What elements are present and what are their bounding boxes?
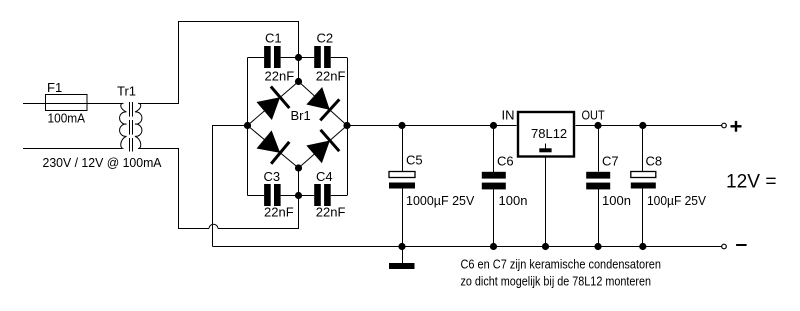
svg-text:C6: C6 [497,154,514,169]
svg-text:78L12: 78L12 [531,126,567,141]
capacitor C8 electrolytic [631,154,706,209]
svg-text:OUT: OUT [582,108,605,123]
wire regulator ground pin [545,158,547,247]
capacitor C6 [482,154,528,209]
svg-text:C2: C2 [317,31,334,46]
bridge rectifier Br1 diamond edges [248,82,348,169]
svg-text:Tr1: Tr1 [117,84,136,99]
capacitor C3 [264,169,294,220]
fuse F1 [45,80,87,126]
capacitor C1 [264,31,294,84]
svg-text:230V / 12V @ 100mA: 230V / 12V @ 100mA [43,156,163,170]
node C6 top [490,122,497,129]
wire C8 branch [642,126,644,172]
node left of bridge [244,122,251,129]
secondary coil [135,103,142,148]
svg-text:C6 en C7 zijn keramische conde: C6 en C7 zijn keramische condensatoren [461,258,662,272]
wire bridge right vertical [347,58,349,196]
svg-text:22nF: 22nF [265,69,295,84]
wire left node to minus rail [213,126,248,247]
node C6 bottom [490,243,497,250]
terminal minus [722,244,747,249]
svg-text:22nF: 22nF [264,205,294,220]
wire C1 row [248,57,265,59]
wire minus rail [213,246,722,248]
diode D3 bottom-left [255,128,289,163]
wire C6 branch [493,126,495,173]
svg-text:C3: C3 [264,169,281,184]
svg-text:22nF: 22nF [316,69,346,84]
node C1 C2 junction [295,54,302,61]
wire hop over vertical [209,224,218,228]
wire C3 row [248,195,265,197]
svg-text:C5: C5 [406,153,423,168]
node regulator ground [542,243,549,250]
svg-text:100mA: 100mA [48,111,86,126]
wire secondary bottom down [139,149,209,229]
svg-text:Br1: Br1 [291,108,311,123]
svg-text:100µF 25V: 100µF 25V [647,193,706,208]
primary coil [120,103,127,148]
wire bridge left vertical [247,58,249,196]
svg-text:C1: C1 [265,31,282,46]
svg-text:1000µF 25V: 1000µF 25V [406,193,475,208]
terminal plus [722,121,742,132]
svg-text:C8: C8 [646,154,663,169]
wire C7 branch [598,126,600,172]
node right of bridge [343,122,350,129]
node bottom of bridge [295,164,302,171]
diode D1 top-left [255,87,289,122]
diode D2 top-right [305,85,340,120]
wire plus rail [347,125,517,127]
capacitor C2 [314,31,345,84]
diode D4 bottom-right [305,130,340,165]
svg-text:IN: IN [502,108,515,123]
node C8 top [639,122,646,129]
capacitor C4 [314,169,345,220]
node C3 C4 junction [295,192,302,199]
svg-text:F1: F1 [47,80,62,95]
node C8 bottom [639,243,646,250]
svg-text:12V =: 12V = [726,171,777,193]
node top of bridge [295,78,302,85]
node C7 bottom [594,243,601,250]
ground [389,263,415,269]
wire primary bottom [23,148,122,150]
svg-text:C4: C4 [316,169,333,184]
node C5 bottom [398,243,405,250]
regulator U1 78L12 [502,108,605,157]
capacitor C7 [586,154,631,209]
core lines [129,102,131,152]
node C5 top [398,122,405,129]
node C7 top [594,122,601,129]
svg-text:C7: C7 [602,154,619,169]
svg-text:100n: 100n [499,193,528,208]
svg-text:zo dicht mogelijk bij de 78L12: zo dicht mogelijk bij de 78L12 monteren [461,275,652,289]
wire primary top [23,103,122,105]
svg-text:100n: 100n [602,193,631,208]
svg-text:22nF: 22nF [316,205,346,220]
capacitor C5 electrolytic [389,153,475,209]
wire hop right to bridge bottom [218,168,299,229]
wire C5 branch [402,126,404,172]
transformer Tr1 [120,102,142,152]
wire secondary top to top rail [139,22,299,104]
